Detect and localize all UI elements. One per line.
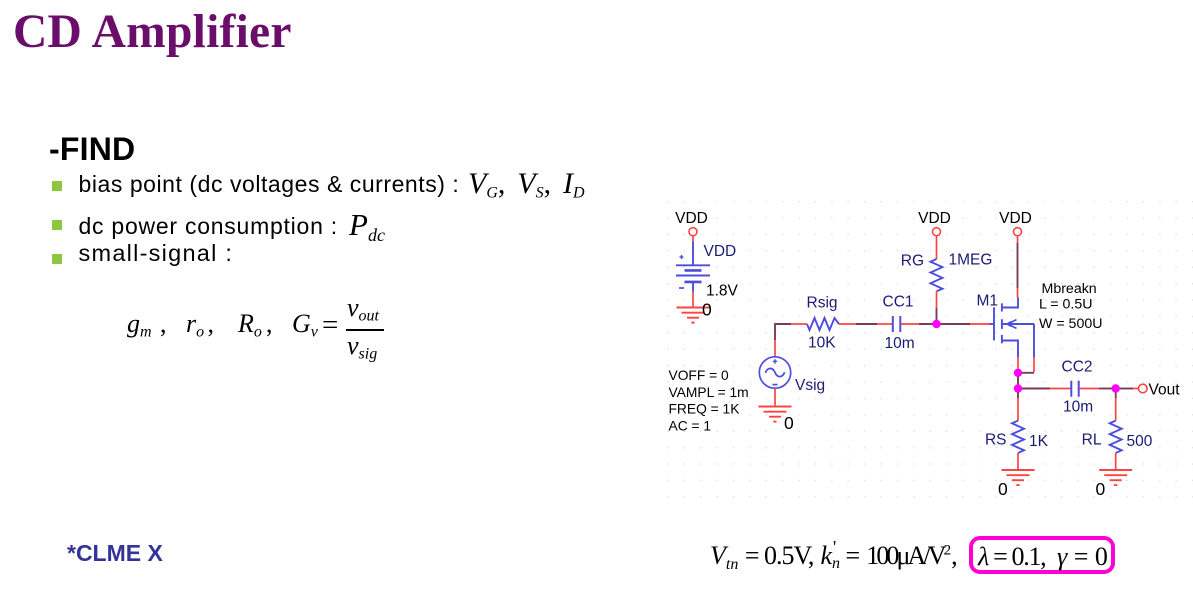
wire [692,236,694,242]
svg-text:VDD: VDD [704,243,737,260]
wire [936,308,938,324]
junction node (output net) [1014,384,1022,392]
pin [1017,236,1019,243]
svg-text:RS: RS [985,432,1007,449]
svg-text:VDD: VDD [918,210,951,227]
svg-text:M1: M1 [977,293,999,310]
wire (node to CC2) [1022,388,1050,390]
svg-text:CC2: CC2 [1062,359,1093,376]
bullet 1 [52,181,62,191]
svg-text:1MEG: 1MEG [949,252,993,269]
power symbol VDD (M1 drain) [1014,228,1022,236]
capacitor CC2 [1071,381,1078,397]
svg-text:W = 500U: W = 500U [1039,316,1102,332]
pin [1115,453,1117,470]
wire [1120,388,1133,390]
minus mark [773,384,778,386]
power symbol VDD (battery) [689,228,697,236]
wire [1099,388,1112,390]
plus mark [774,359,776,363]
wire [919,323,937,325]
junction node (gate net) [932,320,940,328]
svg-text:10K: 10K [808,335,836,352]
svg-text:1K: 1K [1029,433,1049,450]
circuit schematic [650,195,1193,515]
heading -FIND [49,131,135,168]
svg-text:Vout: Vout [1149,382,1181,399]
source lead [1002,341,1018,358]
resistor RL [1110,421,1122,453]
fraction v_out / v_sig [347,295,379,325]
svg-text:RL: RL [1082,432,1102,449]
svg-text:0: 0 [702,300,712,320]
ground (Vsig) [759,407,792,422]
svg-text:Vsig: Vsig [795,377,825,394]
svg-text:0: 0 [998,479,1008,499]
svg-text:AC = 1: AC = 1 [669,419,712,434]
pin [936,291,938,308]
wire [941,323,971,325]
pin [1133,388,1138,390]
svg-text:10m: 10m [1063,399,1093,416]
svg-text:1.8V: 1.8V [706,283,739,300]
drain lead [1002,298,1018,308]
bullet 2 [52,220,62,230]
pin [774,340,776,360]
svg-text:10m: 10m [885,335,915,352]
wire (corner to Rsig) [775,324,791,340]
pin [1079,388,1099,390]
small-signal formula [127,311,152,341]
svg-text:FREQ = 1K: FREQ = 1K [669,402,741,417]
wire (Vout node to RL) [1115,393,1117,399]
bullet 3 [52,254,62,264]
resistor RS [1012,421,1024,453]
svg-text:VOFF = 0: VOFF = 0 [669,368,730,383]
magenta highlight box [969,536,1115,575]
Vsig params text [669,368,749,434]
slide title [13,5,292,59]
MOSFET M1 [990,298,1035,358]
port symbol Vout [1139,384,1148,393]
voltage source Vsig [759,324,791,407]
junction node (Vout) [1112,384,1120,392]
sine symbol [765,368,784,376]
bottom equation [710,543,813,573]
pin [839,323,856,325]
pin [901,323,919,325]
pin [1017,453,1019,470]
footer CLME [67,540,163,567]
pin [1115,398,1117,421]
svg-text:RG: RG [901,253,924,270]
channel bar (drain) [1001,303,1003,311]
wire (node to RS) [1017,393,1019,399]
body vertical lead [1033,324,1035,357]
pin [970,323,990,325]
junction node (source) [1014,369,1022,377]
svg-text:VDD: VDD [999,210,1032,227]
body arrow tip [1005,321,1011,327]
source body circle [759,357,790,388]
pin [774,388,776,406]
pin [877,323,892,325]
pin [1050,388,1071,390]
ground (RL) [1099,470,1132,485]
svg-text:VAMPL = 1m: VAMPL = 1m [669,385,749,400]
body arrow [1008,320,1017,324]
wire [1017,377,1019,385]
pin [1017,288,1019,298]
gate bar [993,307,995,340]
resistor RG [931,259,943,291]
M1 model text Mbreakn [1039,281,1102,332]
wire [692,292,694,308]
battery V1 VDD 1.8V [676,242,710,292]
channel bar (source) [1001,335,1003,343]
resistor Rsig [807,318,839,330]
svg-text:Rsig: Rsig [807,295,838,312]
ground (battery) [677,308,710,323]
pin [791,323,807,325]
wire (body to source node) [1022,372,1035,374]
svg-text:CC1: CC1 [883,294,914,311]
channel bar (body) [1001,319,1003,329]
svg-text:0: 0 [1096,479,1106,499]
svg-text:500: 500 [1127,433,1153,450]
wire [856,323,877,325]
svg-text:L = 0.5U: L = 0.5U [1039,297,1093,313]
pin [1017,398,1019,421]
gate lead [990,323,995,325]
pin (source) [1017,357,1019,369]
pin [936,236,938,259]
body lead [1002,323,1034,325]
power symbol VDD (RG) [933,228,941,236]
capacitor CC1 [893,316,901,332]
pin (body down) [1033,357,1035,372]
ground (RS) [1002,470,1035,485]
svg-text:VDD: VDD [675,210,708,227]
svg-text:0: 0 [784,413,794,433]
wire (VDD to drain) [1017,243,1019,288]
svg-text:Mbreakn: Mbreakn [1042,281,1097,297]
